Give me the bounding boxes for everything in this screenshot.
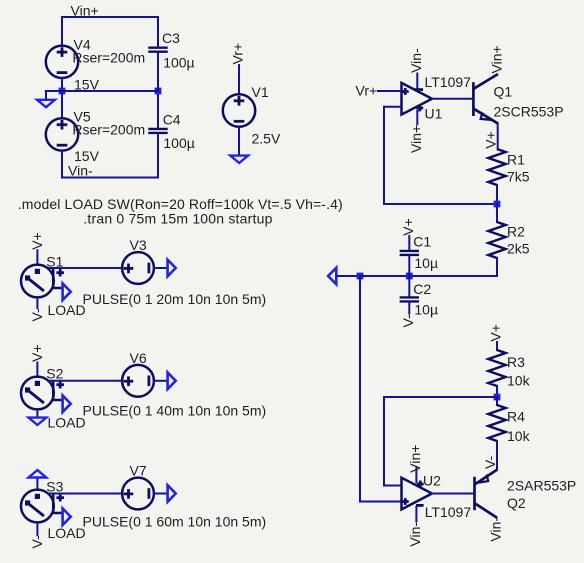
wire V7 to port (154, 493, 166, 495)
port flag (V6 out) (168, 373, 176, 390)
port flag (S1 control-) (63, 283, 71, 300)
svg-text:LOAD: LOAD (48, 302, 86, 318)
wire V1 top pin (238, 65, 240, 94)
svg-text:R3: R3 (507, 354, 525, 370)
svg-text:LT1097: LT1097 (425, 74, 472, 90)
svg-text:10k: 10k (507, 428, 531, 444)
wire mid horizontal (62, 90, 158, 92)
wire U2 output to Q2 base (432, 493, 473, 495)
svg-text:V-: V- (482, 455, 498, 469)
wire R3 top pin (496, 342, 498, 350)
wire port to mid junction (338, 275, 360, 277)
ground (mid supply) (37, 100, 55, 107)
resistor R2 (488, 222, 505, 258)
wire V6 to port (154, 380, 167, 382)
wire to ground branch (46, 90, 62, 92)
svg-text:Vin+: Vin+ (408, 125, 424, 153)
wire S2 control to V6 (49, 380, 122, 382)
wire R2 top pin (496, 204, 498, 222)
wire V3 to port (154, 267, 166, 269)
wire feedback to U2 -input (384, 485, 402, 487)
wire V4 bottom pin (61, 78, 63, 91)
wire mid rail vertical to U2 (359, 276, 361, 502)
svg-text:C3: C3 (162, 30, 180, 46)
svg-text:10k: 10k (507, 372, 531, 388)
wire Q1 emitter to R1 (497, 123, 499, 149)
svg-text:LT1097: LT1097 (425, 504, 472, 520)
voltage source V1 (223, 94, 255, 126)
voltage source V6 (122, 365, 154, 397)
svg-text:V3: V3 (130, 237, 147, 253)
resistor R1 (488, 149, 505, 185)
svg-text:U2: U2 (423, 473, 441, 489)
svg-text:100µ: 100µ (163, 55, 194, 71)
capacitor C1 (400, 251, 419, 255)
svg-text:Vin+: Vin+ (71, 2, 99, 18)
junction mid rail left (357, 273, 364, 280)
svg-text:V-: V- (400, 314, 416, 328)
wire feedback to U1 -input (384, 106, 402, 108)
wire U2 V+ supply pin (415, 468, 417, 483)
svg-text:Q1: Q1 (494, 84, 513, 100)
wire S1 control to V3 (49, 267, 123, 269)
ground (V1) (230, 156, 248, 163)
switch S3 (21, 490, 64, 523)
wire C2 top pin (408, 276, 410, 296)
wire C3 top pin (157, 17, 159, 48)
junction mid node right (155, 88, 162, 95)
wire S1 top pin (36, 250, 38, 264)
wire feedback horizontal to R1/R2 node (384, 203, 497, 205)
svg-text:10µ: 10µ (414, 301, 438, 317)
svg-text:Vin-: Vin- (408, 48, 424, 73)
capacitor C4 (148, 129, 167, 133)
voltage source V4 (46, 46, 78, 78)
wire V5 bottom pin (61, 151, 63, 178)
svg-text:LOAD: LOAD (48, 415, 86, 431)
switch S1 (21, 265, 64, 298)
capacitor C2 (400, 297, 419, 301)
wire U1 V+ supply pin (416, 111, 418, 125)
wire V4 top pin (61, 17, 63, 46)
svg-text:S2: S2 (46, 365, 63, 381)
resistor R4 (488, 405, 505, 441)
svg-text:PULSE(0 1 40m 10n 10n 5m): PULSE(0 1 40m 10n 10n 5m) (83, 403, 267, 419)
port flag (S2 control-) (63, 395, 71, 412)
op-amp U1 (LT1097, mirrored: + on top) (402, 82, 433, 115)
junction R3/R4 node (494, 394, 501, 401)
wire R4 top pin (496, 397, 498, 405)
port flag (mid rail, left) (328, 268, 336, 284)
svg-text:Vin-: Vin- (68, 163, 93, 179)
wire R2 bottom pin (496, 258, 498, 276)
svg-text:U1: U1 (425, 105, 443, 121)
svg-text:Rser=200m: Rser=200m (72, 49, 145, 65)
svg-text:C2: C2 (413, 281, 431, 297)
wire C1 top pin (408, 236, 410, 250)
svg-text:V7: V7 (130, 463, 147, 479)
wire U1 output to Q1 base (432, 98, 472, 100)
transistor Q2 (PNP 2SAR553P) (475, 470, 498, 518)
wire R3 bottom pin (496, 386, 498, 397)
svg-text:.model LOAD SW(Ron=20 Roff=100: .model LOAD SW(Ron=20 Roff=100k Vt=.5 Vh… (18, 196, 343, 212)
ground (S2) (29, 418, 47, 425)
port flag (V3 out) (168, 260, 176, 277)
svg-text:V+: V+ (29, 344, 45, 362)
svg-text:V+: V+ (29, 232, 45, 250)
wire Vin- bottom horizontal (62, 177, 158, 179)
svg-text:R2: R2 (507, 223, 525, 239)
svg-text:7k5: 7k5 (507, 169, 530, 185)
voltage source V5 (46, 118, 78, 150)
op-amp U2 (LT1097) (402, 477, 433, 510)
ground (S3, inverted) (29, 470, 47, 477)
wire V1 bottom pin (238, 127, 240, 155)
svg-text:Vin+: Vin+ (407, 445, 423, 473)
transistor Q1 (NPN 2SCR553P) (473, 74, 498, 123)
wire C4 top pin (157, 91, 159, 128)
svg-text:Rser=200m: Rser=200m (72, 121, 145, 137)
svg-text:V+: V+ (483, 131, 499, 149)
svg-text:S3: S3 (46, 478, 63, 494)
capacitor C3 (148, 48, 167, 52)
svg-text:C1: C1 (413, 233, 431, 249)
wire mid rail to U2 +input (360, 501, 402, 503)
svg-text:C4: C4 (163, 111, 181, 127)
voltage source V7 (122, 478, 154, 510)
svg-text:PULSE(0 1 20m 10n 10n 5m): PULSE(0 1 20m 10n 10n 5m) (83, 291, 267, 307)
svg-text:2SCR553P: 2SCR553P (494, 104, 564, 120)
svg-text:Vin-: Vin- (488, 517, 504, 542)
svg-text:R4: R4 (507, 409, 525, 425)
svg-text:Vr+: Vr+ (356, 83, 378, 99)
port flag (V7 out) (168, 485, 176, 502)
voltage source V3 (122, 252, 154, 284)
svg-text:V-: V- (29, 535, 45, 549)
junction R1/R2 node (494, 201, 501, 208)
svg-text:10µ: 10µ (414, 255, 438, 271)
junction C1/C2 node (406, 273, 413, 280)
svg-text:Vin-: Vin- (407, 522, 423, 547)
wire S1 bottom pin (36, 297, 38, 308)
wire feedback horizontal (U2) (384, 396, 497, 398)
wire feedback vertical (U2) (383, 397, 385, 486)
wire S3 bottom pin (36, 522, 38, 535)
svg-text:100µ: 100µ (163, 135, 194, 151)
resistor R3 (488, 350, 505, 386)
wire R4 bottom to Q2 emitter (496, 441, 498, 470)
svg-text:V+: V+ (488, 324, 504, 342)
wire ground stub (45, 91, 47, 99)
svg-text:V6: V6 (130, 350, 147, 366)
wire C3 bottom pin (157, 52, 159, 91)
wire C4 bottom pin (157, 134, 159, 178)
svg-text:Q2: Q2 (507, 495, 526, 511)
svg-text:2SAR553P: 2SAR553P (507, 478, 576, 494)
wire C1 bottom pin (408, 255, 410, 276)
svg-text:V1: V1 (252, 84, 269, 100)
svg-text:.tran 0 75m 15m 100n startup: .tran 0 75m 15m 100n startup (83, 211, 272, 227)
svg-text:Vin+: Vin+ (489, 45, 505, 73)
svg-text:2.5V: 2.5V (252, 130, 281, 146)
svg-text:2k5: 2k5 (507, 241, 530, 257)
wire Vin+ top horizontal (62, 16, 158, 18)
wire Vr+ to U1 +input (378, 90, 402, 92)
svg-text:Vr+: Vr+ (230, 43, 246, 65)
wire S3 control to V7 (49, 493, 123, 495)
port flag (S3 control-) (63, 508, 71, 525)
wire S3 top pin (36, 479, 38, 490)
wire feedback vertical (U1) (383, 107, 385, 204)
wire S2 top pin (36, 363, 38, 378)
svg-text:PULSE(0 1 60m 10n 10n 5m): PULSE(0 1 60m 10n 10n 5m) (83, 514, 267, 530)
wire C2 bottom pin (408, 302, 410, 314)
svg-text:15V: 15V (74, 148, 100, 164)
svg-text:V-: V- (29, 308, 45, 322)
wire U1 V- supply pin (416, 74, 418, 89)
wire R1 bottom pin (496, 185, 498, 204)
wire V5 top pin (61, 91, 63, 118)
wire U2 V- supply pin (415, 507, 417, 522)
wire mid rail horizontal (360, 275, 497, 277)
wire S2 bottom pin (36, 409, 38, 416)
svg-text:LOAD: LOAD (48, 525, 86, 541)
switch S2 (21, 377, 64, 410)
junction V4-/V5+ node (59, 88, 66, 95)
svg-text:R1: R1 (507, 151, 525, 167)
